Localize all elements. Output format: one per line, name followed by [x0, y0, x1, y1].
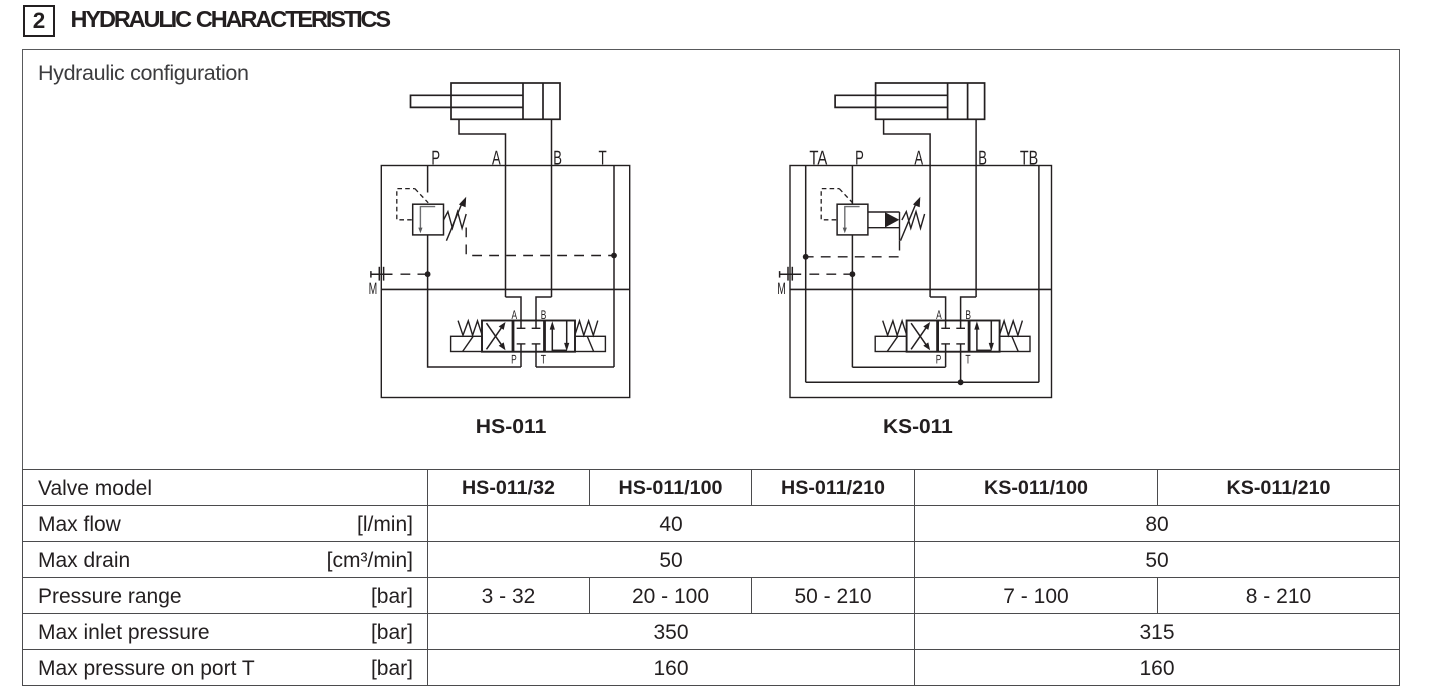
- valve HS body: [482, 321, 575, 352]
- section title: [71, 6, 389, 33]
- valve HS right spring: [575, 321, 598, 336]
- svg-text:A: A: [914, 148, 923, 170]
- cylinder HS rod: [411, 95, 524, 107]
- cylinder KS rod: [835, 95, 948, 107]
- valve HS crossed arrows left section: [487, 326, 504, 350]
- node P line KS: [851, 166, 853, 205]
- valve HS parallel arrows right section: [551, 328, 553, 352]
- svg-text:P: P: [936, 353, 942, 367]
- HS-011 internal deck line: [381, 288, 629, 290]
- svg-text:P: P: [511, 353, 517, 367]
- wire cylinder-A port KS: [884, 119, 931, 297]
- section number box: [23, 5, 55, 37]
- valve KS crossed arrows left section: [911, 326, 928, 350]
- wire A jog into valve KS: [930, 297, 946, 328]
- gauge port M KS: [780, 273, 802, 275]
- wire A jog into valve HS: [506, 297, 522, 328]
- KS inner P-loop: [852, 366, 945, 368]
- HS-011 manifold envelope: [381, 166, 629, 398]
- valve KS blocked port B: [956, 327, 965, 329]
- wire cylinder-B port HS: [551, 119, 553, 297]
- node T junction KS: [958, 379, 964, 385]
- relief valve HS vent dashed line to T: [466, 228, 614, 256]
- svg-text:B: B: [541, 308, 547, 322]
- characteristics table: [22, 469, 1400, 686]
- KS-011 internal deck line: [790, 288, 1052, 290]
- cylinder KS body: [876, 83, 985, 119]
- valve KS left solenoid: [875, 336, 907, 351]
- HS inner P-loop box: [428, 289, 521, 367]
- svg-text:B: B: [553, 148, 562, 170]
- svg-text:M: M: [369, 280, 378, 298]
- valve KS left spring: [883, 321, 907, 336]
- valve HS blocked port A: [517, 327, 526, 329]
- relief valve KS dashed pilot loop: [821, 189, 839, 220]
- wire B jog into valve HS: [536, 297, 552, 328]
- valve KS blocked port T: [956, 343, 965, 345]
- wire M dashed to P KS: [809, 273, 852, 275]
- svg-text:KS-011: KS-011: [883, 416, 953, 438]
- valve KS blocked port A: [941, 327, 950, 329]
- svg-text:TB: TB: [1020, 148, 1038, 170]
- node TA line KS: [805, 166, 807, 383]
- relief valve KS body: [837, 204, 868, 235]
- relief valve KS adjust arrow: [901, 204, 916, 241]
- relief valve HS dashed pilot loop: [397, 189, 415, 220]
- relief valve HS body: [413, 204, 444, 235]
- svg-text:A: A: [512, 308, 518, 322]
- svg-text:T: T: [965, 353, 970, 367]
- node TA-vent junction: [803, 254, 809, 260]
- svg-text:T: T: [541, 353, 546, 367]
- node TB line KS: [1038, 166, 1040, 383]
- relief valve KS vent dashed line to TA: [806, 241, 900, 257]
- hydraulic configuration frame: [22, 49, 1400, 470]
- valve KS parallel arrows right section: [976, 328, 978, 352]
- valve KS right solenoid: [1000, 336, 1030, 351]
- svg-text:M: M: [777, 280, 786, 298]
- svg-text:T: T: [599, 148, 607, 170]
- svg-text:P: P: [855, 148, 864, 170]
- valve HS blocked port P: [517, 343, 526, 345]
- HS inner T-loop segment: [536, 366, 614, 368]
- relief valve KS spring: [902, 212, 925, 229]
- valve KS right spring: [1000, 321, 1023, 336]
- svg-text:P: P: [431, 148, 440, 170]
- valve KS blocked port P: [941, 343, 950, 345]
- node P-M junction HS: [425, 271, 431, 277]
- relief valve HS adjust arrow: [446, 204, 461, 241]
- wire M dashed to P HS: [401, 273, 428, 275]
- relief valve KS pilot stage: [868, 211, 900, 213]
- relief valve HS internal flow arrow: [420, 207, 435, 229]
- svg-text:A: A: [492, 148, 501, 170]
- cylinder HS body: [451, 83, 560, 119]
- KS TA/TB bottom loop: [806, 381, 1039, 383]
- valve HS blocked port B: [532, 327, 541, 329]
- wire T stub to TA/TB loop KS: [960, 367, 962, 382]
- svg-text:HS-011: HS-011: [476, 416, 547, 438]
- node T-vent junction: [611, 253, 617, 259]
- valve HS left spring: [458, 321, 482, 336]
- svg-text:B: B: [978, 148, 987, 170]
- node P line HS: [427, 166, 429, 193]
- cylinder KS piston: [947, 83, 949, 119]
- KS-011 manifold envelope: [790, 166, 1052, 398]
- wire cylinder-B port KS: [975, 119, 977, 297]
- wire cylinder-A port HS: [459, 119, 506, 297]
- valve KS body: [907, 321, 1000, 352]
- valve HS left solenoid: [451, 336, 483, 351]
- relief valve KS internal flow arrow: [845, 207, 860, 229]
- valve HS right solenoid: [575, 336, 605, 351]
- svg-text:A: A: [936, 308, 942, 322]
- cylinder HS piston: [522, 83, 524, 119]
- gauge port M HS: [371, 273, 393, 275]
- relief valve HS spring: [444, 212, 467, 229]
- node P-M junction KS: [850, 271, 856, 277]
- svg-text:TA: TA: [809, 148, 827, 170]
- valve HS blocked port T: [532, 343, 541, 345]
- caption: [38, 61, 249, 86]
- wire B jog into valve KS: [961, 297, 977, 328]
- svg-text:B: B: [965, 308, 971, 322]
- node T line HS: [613, 166, 615, 368]
